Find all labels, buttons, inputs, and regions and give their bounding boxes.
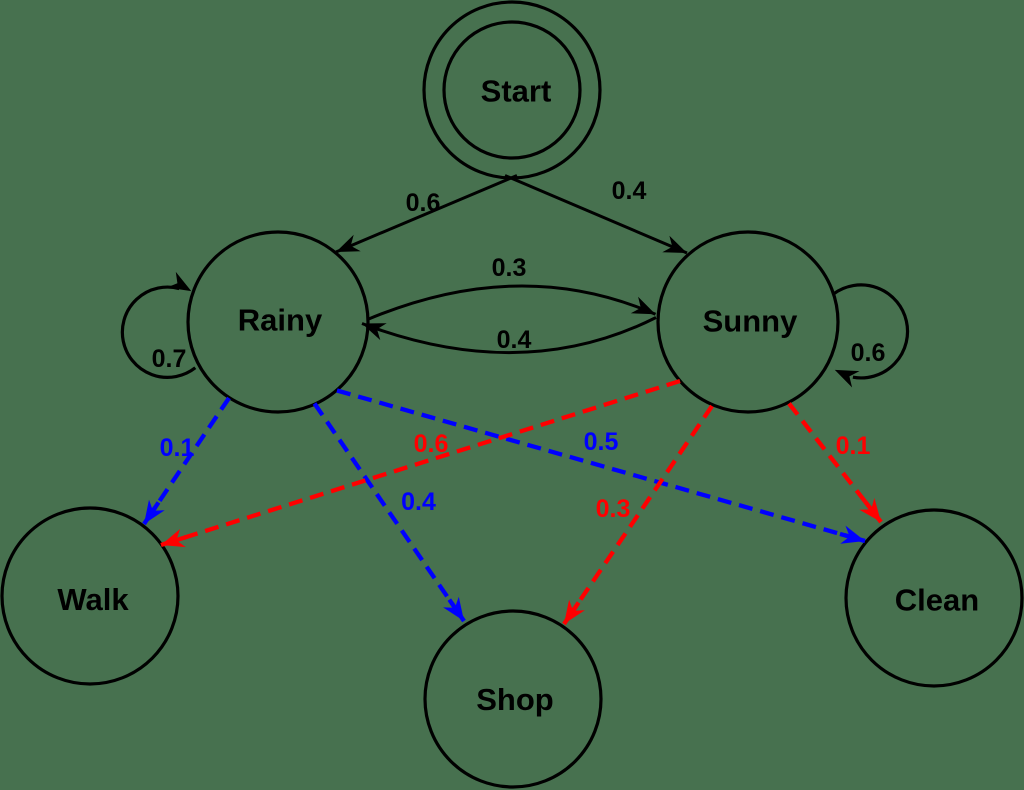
svg-text:Rainy: Rainy (238, 303, 323, 338)
svg-text:0.6: 0.6 (406, 189, 441, 217)
svg-text:0.3: 0.3 (492, 254, 527, 282)
svg-text:0.7: 0.7 (152, 345, 187, 373)
svg-text:Shop: Shop (476, 682, 554, 717)
svg-text:Start: Start (481, 74, 552, 109)
svg-text:0.6: 0.6 (414, 430, 449, 458)
svg-text:0.3: 0.3 (596, 495, 631, 523)
svg-text:0.1: 0.1 (836, 432, 871, 460)
svg-text:Clean: Clean (895, 583, 979, 618)
svg-text:Walk: Walk (57, 582, 129, 617)
svg-text:0.4: 0.4 (401, 488, 436, 516)
svg-text:0.5: 0.5 (584, 428, 619, 456)
svg-text:0.4: 0.4 (497, 326, 532, 354)
svg-text:Sunny: Sunny (703, 304, 798, 339)
svg-text:0.6: 0.6 (851, 339, 886, 367)
svg-text:0.1: 0.1 (160, 434, 195, 462)
svg-text:0.4: 0.4 (612, 177, 647, 205)
